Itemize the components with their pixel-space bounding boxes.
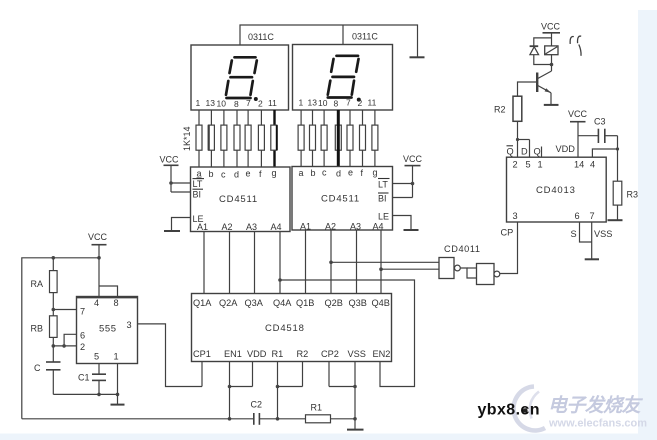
wire EN1 to VDD	[230, 386, 253, 388]
label 0311C display DS2	[352, 32, 378, 42]
wire U5B out to CD4013 CP	[500, 222, 518, 274]
CD4511 U3 segment pin labels a-g	[299, 168, 378, 179]
display DS1 body	[191, 45, 289, 110]
CD4511 U3 pin BI label (active low)	[378, 193, 389, 204]
wire U3 LT to VCC	[393, 182, 415, 186]
svg-text:S: S	[571, 229, 577, 239]
wire 0311C band divider	[342, 25, 344, 45]
wire RB to C	[52, 337, 56, 362]
svg-text:c: c	[322, 168, 327, 178]
svg-text:电子发烧友: 电子发烧友	[548, 395, 644, 417]
svg-text:C2: C2	[251, 400, 263, 410]
svg-text:5: 5	[526, 160, 531, 170]
svg-text:6: 6	[80, 331, 85, 341]
svg-text:A4: A4	[271, 222, 282, 232]
relay contact switch	[570, 36, 581, 56]
ground at 555 pin1	[111, 404, 125, 406]
svg-text:2: 2	[258, 98, 263, 108]
display DS1 digit 8	[226, 57, 257, 98]
wire U2.A3 to Q3A	[254, 232, 256, 294]
resistor RN2-d	[335, 125, 341, 150]
svg-text:2: 2	[358, 98, 363, 108]
wire pin4 to R3 node	[592, 149, 617, 157]
wire R2 to Qbar and D pins	[516, 121, 530, 157]
CD4011 name label	[444, 244, 481, 254]
svg-text:1: 1	[538, 160, 543, 170]
CD4511 U2 segment pin labels a-g	[197, 168, 277, 180]
wire 555 pin5 to C1	[98, 364, 100, 375]
resistor R3 label	[627, 190, 639, 200]
CD4511 U2 name label	[219, 194, 258, 205]
svg-text:BI: BI	[193, 190, 202, 200]
wire segment display2 b column	[312, 110, 314, 167]
wire CP1 to 555 out	[201, 362, 203, 387]
svg-text:RB: RB	[31, 324, 44, 334]
svg-text:13: 13	[206, 98, 216, 108]
CD4013 U6 name label	[536, 185, 576, 196]
CD4518 U4 bottom pin labels	[193, 349, 390, 359]
op CD4511 U3 body	[292, 167, 393, 231]
svg-text:CD4511: CD4511	[321, 194, 360, 205]
wire segment display1 g column (thick)	[273, 110, 275, 167]
svg-text:CD4013: CD4013	[536, 185, 576, 196]
svg-text:CP1: CP1	[193, 349, 211, 359]
svg-text:LE: LE	[378, 212, 389, 222]
resistor RN2-g	[372, 125, 378, 150]
nand gate U5A output bubble	[455, 265, 461, 271]
wire R3 bottom	[617, 205, 619, 220]
svg-text:LT: LT	[378, 180, 388, 190]
resistor RA label	[31, 279, 44, 289]
resistor R2 label	[494, 105, 506, 115]
resistor RN2-c	[321, 125, 327, 150]
display DS1 pin numbers 1 13 10 8 7 2 11	[196, 98, 278, 109]
wire 555 pin8 bracket	[99, 286, 118, 297]
svg-text:Q: Q	[534, 147, 541, 157]
svg-text:A3: A3	[350, 222, 361, 232]
wire segment display1 a column	[198, 110, 200, 167]
wire segment display1 e column	[247, 110, 249, 167]
svg-text:C1: C1	[78, 373, 90, 383]
resistor RN1-d	[234, 125, 240, 150]
wire resistor R1 to VSS	[331, 418, 356, 420]
resistor RN2-e	[347, 125, 353, 150]
display DS2 decimal point	[357, 98, 361, 102]
watermark elecfans chinese text	[548, 395, 644, 417]
svg-text:LT: LT	[193, 179, 203, 189]
wire C3 right down to R3	[616, 136, 619, 182]
svg-text:1K*14: 1K*14	[182, 126, 192, 151]
VCC symbol for CD4013 VDD	[568, 109, 588, 157]
svg-text:2: 2	[80, 342, 85, 352]
VCC symbol for relay	[541, 22, 561, 46]
wire node to 555 pin2	[53, 345, 76, 347]
wire segment display2 e column	[349, 110, 351, 167]
wire R2 pin down	[302, 362, 304, 387]
wire segment display1 f column	[260, 110, 262, 167]
ground at U2 LE	[164, 230, 180, 232]
resistor RN2-b	[310, 125, 316, 150]
svg-text:Q4B: Q4B	[372, 298, 390, 308]
outer loop wire left vertical	[22, 256, 101, 419]
capacitor C3	[578, 129, 618, 143]
display DS2 digit 8	[328, 56, 359, 98]
capacitor C2 label	[251, 400, 263, 410]
wire segment display1 d column	[236, 110, 238, 167]
wire R1 pin to resistor R1	[278, 418, 306, 420]
CD4511 U2 pin LE label	[193, 214, 204, 224]
resistor RN1-g	[271, 125, 277, 150]
CD4511 U3 pins A1 A2 A3 A4 labels	[300, 222, 384, 232]
ground at VSS	[347, 429, 364, 431]
svg-text:VCC: VCC	[403, 154, 423, 164]
svg-text:VSS: VSS	[594, 229, 612, 239]
wire U2 BI to VCC	[171, 191, 191, 193]
svg-text:2: 2	[513, 160, 518, 170]
wire segment display1 b column	[210, 110, 212, 167]
wire segment display2 f column	[362, 110, 364, 167]
wire C to C1 ground rail	[53, 393, 119, 397]
wire U3.A1 to Q1B	[305, 230, 307, 294]
svg-text:VDD: VDD	[556, 144, 576, 154]
CD4511 U3 name label	[321, 194, 360, 205]
resistor R1	[306, 415, 331, 423]
svg-text:e: e	[348, 168, 353, 178]
ground at U3 LE	[404, 229, 419, 231]
VCC symbol for U2	[160, 155, 180, 193]
svg-text:A3: A3	[246, 222, 257, 232]
wire 0311C label band top rail	[240, 25, 418, 57]
wire C2 to R1 pin	[259, 418, 277, 420]
svg-text:Q3A: Q3A	[245, 298, 264, 308]
node Q2B branch to NAND input	[329, 261, 439, 265]
resistor network RN1 label 1K*14	[182, 126, 192, 151]
svg-text:www.elecfans.com: www.elecfans.com	[548, 418, 647, 430]
svg-text:Q4A: Q4A	[273, 298, 292, 308]
wire VSS down to ground	[353, 362, 357, 430]
svg-text:Q3B: Q3B	[349, 298, 367, 308]
CD4511 U2 pin BI label (active low)	[193, 189, 204, 199]
capacitor C	[46, 362, 61, 394]
VCC symbol for 555	[88, 232, 108, 297]
CD4013 U6 pin numbers top	[513, 160, 596, 170]
555 U1 pin number labels	[80, 298, 132, 362]
svg-text:0311C: 0311C	[352, 32, 378, 42]
wire U3.A4 to Q4B	[380, 230, 382, 294]
svg-text:3: 3	[513, 211, 518, 221]
wire U3.A3 to Q3B	[356, 230, 358, 294]
ground at CD4013 VSS	[585, 258, 599, 260]
CD4511 U3 pin LE label	[378, 212, 389, 222]
watermark elecfans logo swoosh	[514, 387, 545, 431]
ground top-right	[410, 56, 425, 58]
capacitor C1	[92, 374, 106, 394]
svg-text:3: 3	[127, 320, 132, 330]
resistor RN1-c	[221, 125, 227, 150]
svg-text:4: 4	[94, 298, 99, 308]
svg-text:D: D	[521, 147, 528, 157]
svg-text:Q1A: Q1A	[193, 298, 212, 308]
ground at transistor emitter	[544, 104, 559, 106]
node Q4B branch to NAND input	[379, 267, 439, 271]
resistor RN1-f	[258, 125, 264, 150]
display DS2 pin numbers 1 13 10 8 7 2 11	[299, 97, 377, 108]
svg-text:g: g	[373, 168, 378, 178]
svg-text:5: 5	[94, 352, 99, 362]
wire 555 pin1 to ground	[117, 364, 119, 405]
svg-text:VDD: VDD	[247, 349, 267, 359]
resistor RB	[50, 316, 58, 338]
wire CP2 to VSS	[329, 386, 355, 388]
wire U3 LE	[393, 216, 412, 230]
wire 555 pin6 jog	[62, 334, 76, 347]
display DS1 decimal point	[254, 97, 258, 101]
wire CP2 down	[328, 362, 330, 387]
watermark ybx8.cn	[478, 402, 540, 419]
svg-text:7: 7	[590, 211, 595, 221]
resistor R1 label	[311, 403, 323, 413]
svg-text:7: 7	[80, 307, 85, 317]
svg-text:VCC: VCC	[568, 109, 588, 119]
svg-text:555: 555	[99, 324, 117, 335]
svg-text:e: e	[246, 169, 251, 179]
wire U2 LE	[172, 218, 191, 231]
svg-text:A4: A4	[373, 222, 384, 232]
ground bar at R3 bottom	[608, 219, 623, 221]
wire node to 555 pin7	[53, 309, 76, 311]
CD4013 U6 top labels Qbar D Q VDD	[507, 144, 576, 157]
wire VDD down	[252, 362, 254, 387]
CD4511 U2 pins A1 A2 A3 A4 labels	[197, 222, 282, 232]
resistor R2	[513, 96, 522, 121]
svg-text:A1: A1	[197, 222, 208, 232]
svg-text:BI: BI	[378, 194, 387, 204]
svg-text:VCC: VCC	[160, 155, 180, 165]
transistor Q1 NPN	[537, 65, 551, 105]
svg-text:A2: A2	[222, 222, 233, 232]
svg-text:R2: R2	[297, 349, 309, 359]
svg-text:11: 11	[368, 97, 377, 107]
svg-text:14: 14	[574, 160, 584, 170]
capacitor C3 label	[594, 117, 606, 127]
svg-text:Q: Q	[507, 147, 514, 157]
svg-text:13: 13	[308, 97, 318, 107]
wire U2.A2 to Q2A	[229, 232, 231, 294]
svg-text:RA: RA	[31, 279, 44, 289]
resistor RA	[50, 271, 58, 293]
wire U5A out to U5B in	[460, 268, 476, 278]
nand gate U5B body	[477, 264, 495, 285]
svg-text:11: 11	[268, 98, 277, 108]
relay coil K1	[545, 46, 558, 66]
555 U1 name label	[99, 324, 117, 335]
svg-text:VSS: VSS	[348, 349, 366, 359]
node Q4A branch to EN2	[278, 278, 414, 386]
wire segment display2 d column (thick)	[337, 110, 340, 167]
svg-text:b: b	[311, 168, 316, 178]
svg-text:10: 10	[217, 98, 227, 108]
CD4511 U3 pin LT label (active low)	[378, 179, 390, 190]
wire U3.A2 to Q2B	[330, 230, 332, 294]
svg-text:R1: R1	[311, 403, 323, 413]
resistor RN1-a	[196, 125, 202, 150]
nand gate U5A body	[439, 258, 454, 279]
svg-text:Q1B: Q1B	[296, 298, 314, 308]
svg-text:CD4511: CD4511	[219, 194, 258, 205]
wire S pin to VSS	[580, 222, 592, 242]
resistor RN1-e	[245, 125, 251, 150]
wire U2.A4 to Q4A	[279, 232, 281, 294]
svg-text:Q2A: Q2A	[219, 298, 238, 308]
CD4518 U4 top pin labels Q1A..Q4B	[193, 298, 390, 308]
label 0311C display DS1	[248, 32, 274, 42]
wire U2.A1 to Q1A	[203, 232, 205, 294]
svg-text:c: c	[221, 170, 226, 180]
op CD4511 U2 body	[191, 167, 291, 232]
svg-text:R2: R2	[494, 105, 506, 115]
resistor RN2-f	[360, 125, 366, 150]
svg-text:8: 8	[114, 298, 119, 308]
svg-text:Q2B: Q2B	[325, 298, 343, 308]
wire segment display2 g column	[374, 110, 376, 167]
svg-text:EN1: EN1	[224, 349, 242, 359]
svg-text:d: d	[234, 170, 239, 180]
op CD4518 U4 body	[192, 294, 392, 362]
svg-text:7: 7	[346, 97, 351, 107]
CD4013 U6 pin numbers bottom	[513, 211, 595, 221]
svg-text:CP2: CP2	[321, 349, 339, 359]
wire VCC to RA	[52, 258, 54, 271]
svg-text:1: 1	[196, 98, 201, 108]
diode D1 flyback	[530, 38, 552, 65]
wire bottom rail left of C2	[22, 418, 254, 420]
capacitor C1 label	[78, 373, 90, 383]
wire transistor base to R2	[518, 82, 537, 96]
CD4013 bottom labels CP S VSS	[501, 228, 613, 240]
svg-text:8: 8	[334, 98, 339, 108]
capacitor C label	[34, 363, 41, 373]
wire Q pin stub	[541, 147, 543, 158]
wire U2 LT to VCC	[169, 181, 190, 185]
nand gate U5B output bubble	[494, 271, 500, 277]
wire 555 pin3 output to CP1	[138, 324, 203, 387]
capacitor C2	[254, 413, 260, 425]
timer 555 U1 body	[77, 297, 138, 364]
svg-text:6: 6	[575, 211, 580, 221]
resistor RN2-a	[298, 125, 304, 150]
svg-text:C3: C3	[594, 117, 606, 127]
svg-text:1: 1	[114, 352, 119, 362]
wire segment display2 c column	[323, 110, 325, 167]
svg-text:d: d	[336, 169, 341, 179]
svg-text:a: a	[299, 168, 304, 178]
resistor RB label	[31, 324, 44, 334]
wire segment display2 a column	[300, 110, 302, 167]
svg-text:EN2: EN2	[373, 349, 391, 359]
CD4511 U2 pin LT label (active low)	[193, 179, 205, 189]
op CD4013 U6 body	[507, 157, 607, 222]
svg-text:0311C: 0311C	[248, 32, 274, 42]
resistor R3	[613, 181, 622, 205]
svg-text:CD4518: CD4518	[265, 323, 305, 334]
svg-text:a: a	[197, 169, 202, 179]
svg-text:VCC: VCC	[88, 232, 108, 242]
wire EN1 down	[228, 362, 232, 421]
svg-text:R3: R3	[627, 190, 639, 200]
wire segment display1 c column	[223, 110, 225, 167]
display DS2 body	[293, 45, 393, 111]
svg-text:R1: R1	[272, 349, 284, 359]
svg-text:ybx8.cn: ybx8.cn	[478, 402, 540, 419]
svg-text:CD4011: CD4011	[444, 244, 481, 254]
svg-text:C: C	[34, 363, 41, 373]
svg-text:b: b	[209, 169, 214, 179]
svg-text:CP: CP	[501, 228, 514, 238]
svg-text:4: 4	[590, 160, 595, 170]
wire R1 pin to R2 pin	[278, 386, 303, 388]
svg-text:10: 10	[318, 98, 328, 108]
wire VSS pin down	[591, 222, 593, 259]
wire R1 pin down	[276, 362, 280, 421]
svg-text:VCC: VCC	[541, 22, 561, 32]
CD4518 U4 name label	[265, 323, 305, 334]
wire U3 BI to VCC	[393, 197, 413, 199]
resistor RN1-b	[208, 125, 214, 150]
svg-text:g: g	[272, 168, 277, 178]
watermark elecfans url	[548, 418, 647, 430]
VCC symbol for U3	[403, 154, 423, 198]
svg-text:8: 8	[234, 99, 239, 109]
wire RA to RB	[52, 293, 56, 316]
svg-text:7: 7	[246, 98, 251, 108]
svg-text:1: 1	[299, 97, 304, 107]
